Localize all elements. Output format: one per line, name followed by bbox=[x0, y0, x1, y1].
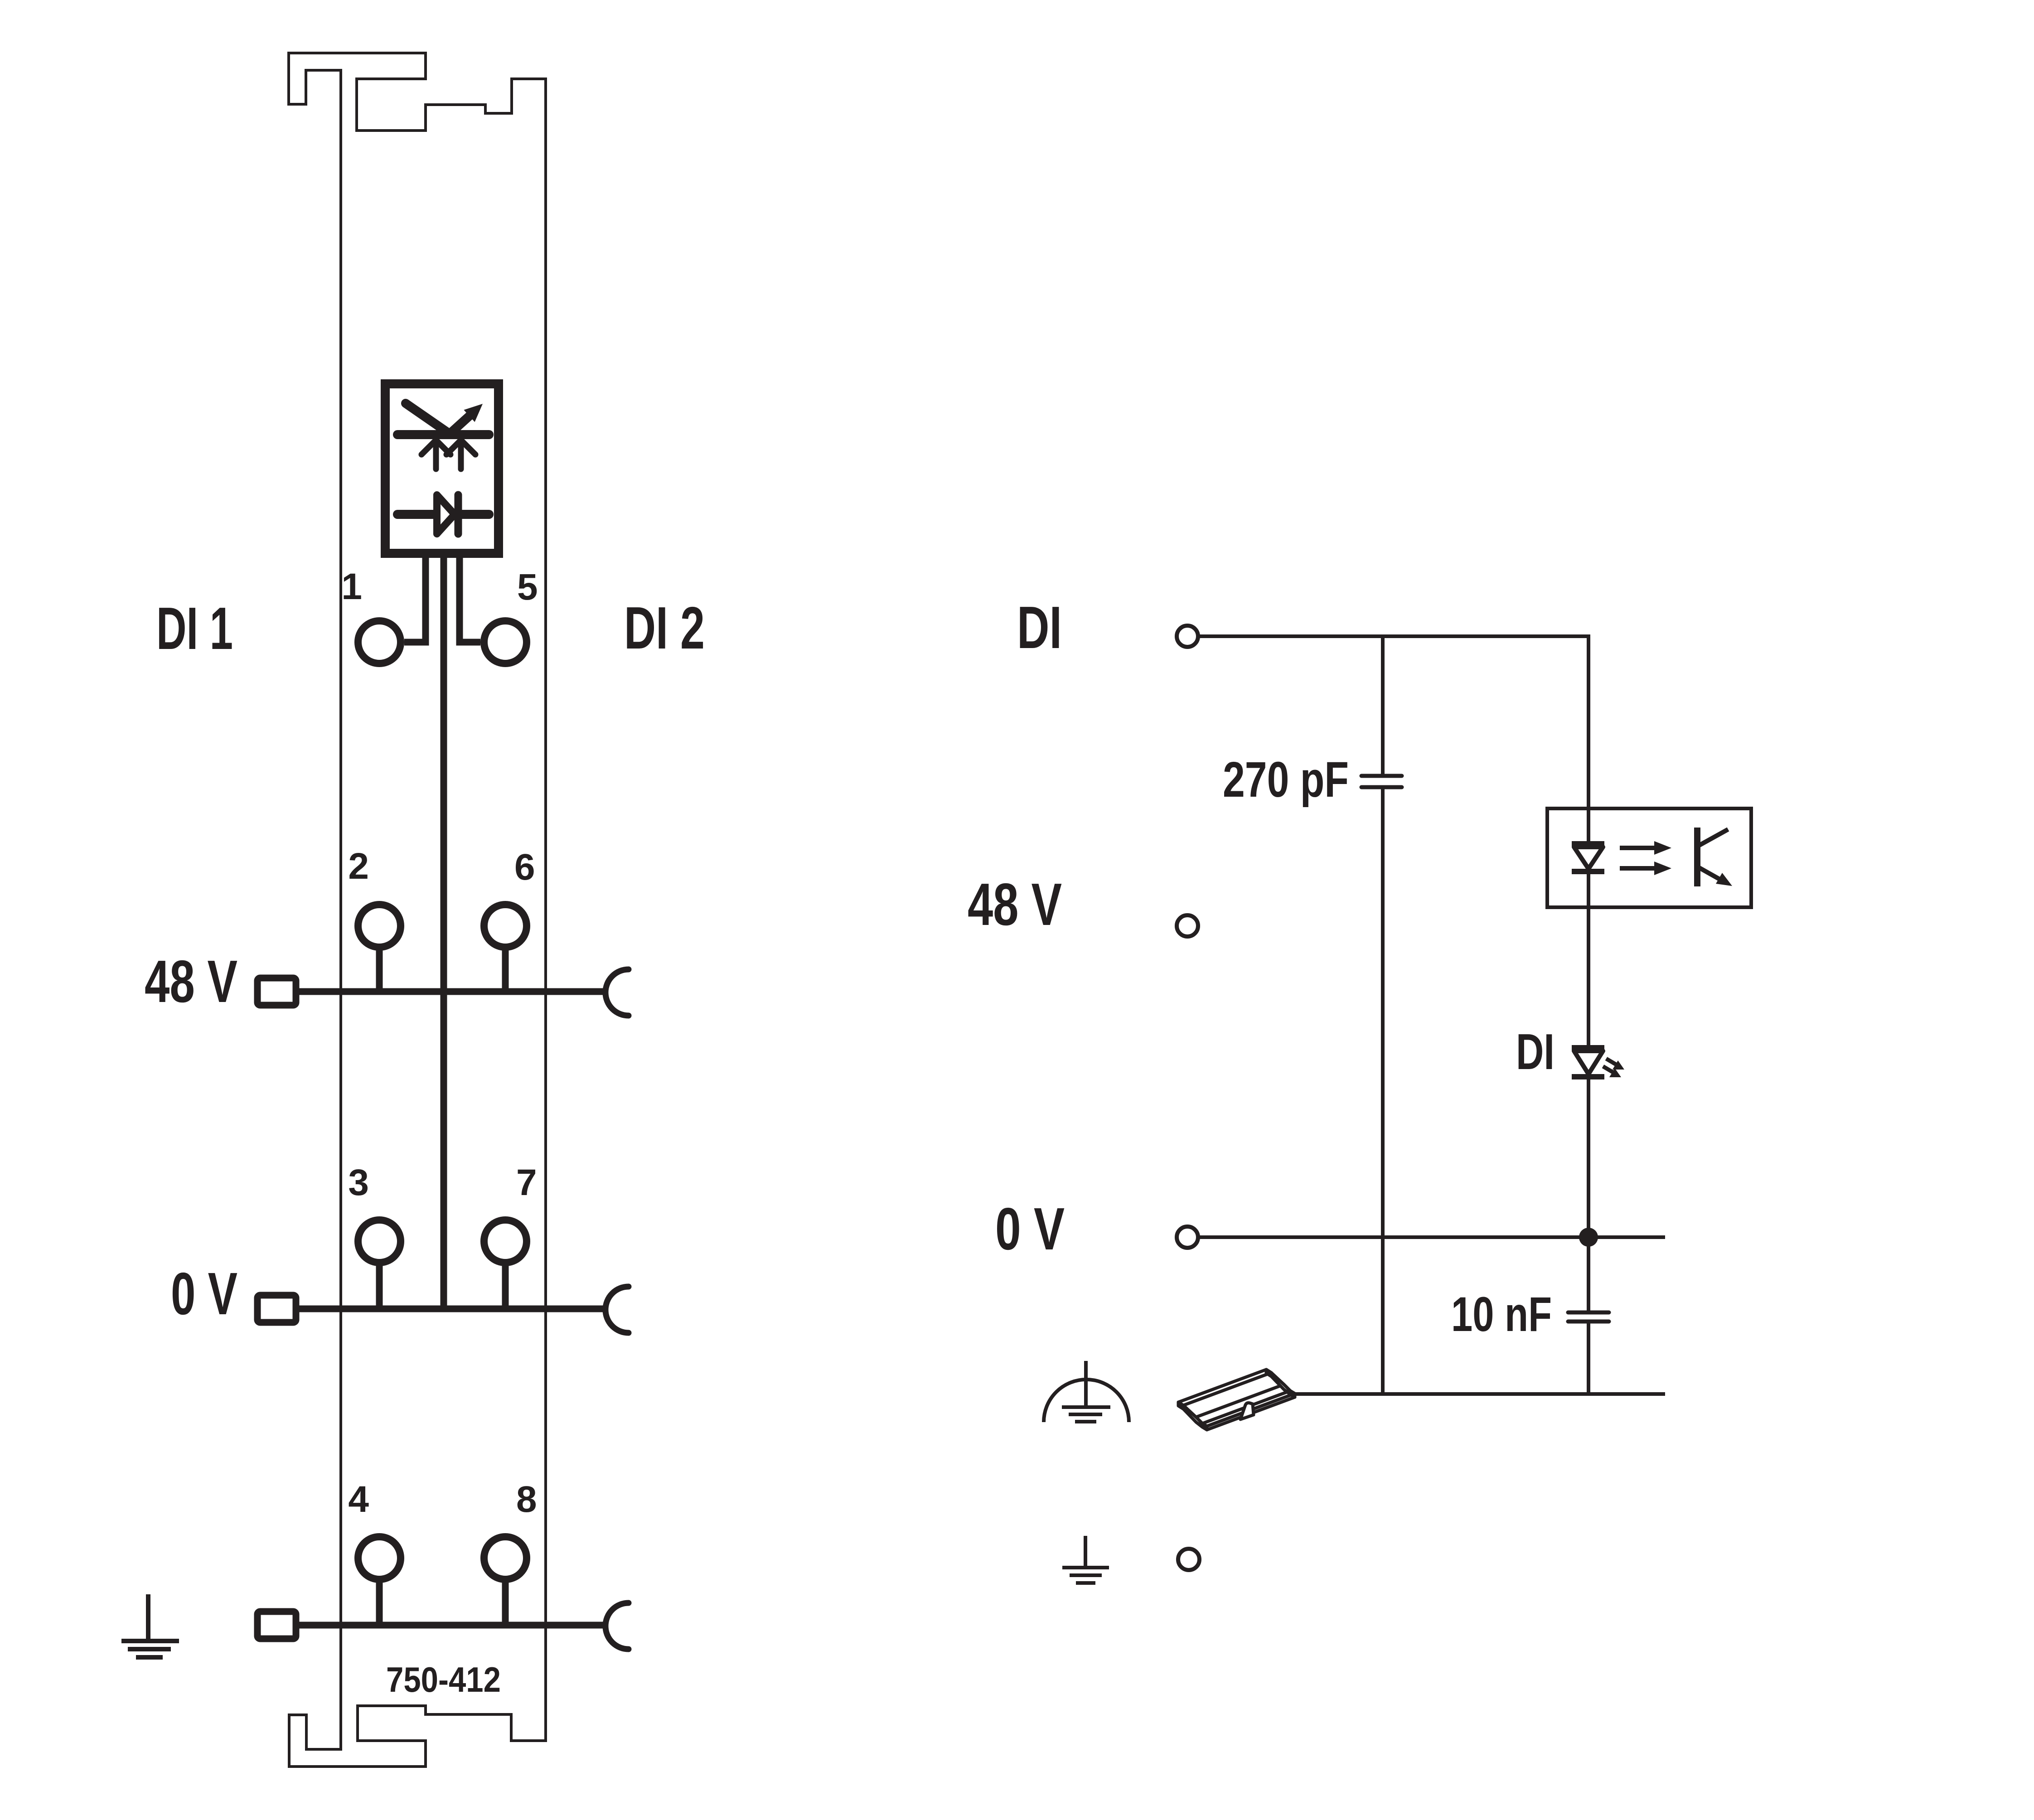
svg-text:7: 7 bbox=[516, 1162, 537, 1203]
svg-text:0 V: 0 V bbox=[171, 1260, 237, 1327]
svg-text:8: 8 bbox=[516, 1479, 537, 1520]
svg-text:4: 4 bbox=[348, 1479, 369, 1520]
svg-text:750-412: 750-412 bbox=[386, 1660, 501, 1699]
svg-text:1: 1 bbox=[341, 566, 362, 607]
svg-text:6: 6 bbox=[514, 847, 535, 888]
svg-text:48 V: 48 V bbox=[145, 948, 237, 1015]
svg-text:5: 5 bbox=[517, 566, 538, 608]
svg-text:270 pF: 270 pF bbox=[1223, 752, 1349, 808]
svg-text:DI: DI bbox=[1516, 1024, 1555, 1080]
svg-text:DI: DI bbox=[1017, 594, 1062, 661]
svg-text:2: 2 bbox=[348, 846, 369, 887]
svg-text:0 V: 0 V bbox=[995, 1196, 1065, 1262]
svg-text:DI 1: DI 1 bbox=[156, 595, 233, 662]
svg-text:3: 3 bbox=[348, 1162, 369, 1203]
svg-text:10 nF: 10 nF bbox=[1451, 1287, 1552, 1341]
svg-text:48 V: 48 V bbox=[968, 871, 1062, 938]
svg-text:DI 2: DI 2 bbox=[624, 595, 705, 661]
